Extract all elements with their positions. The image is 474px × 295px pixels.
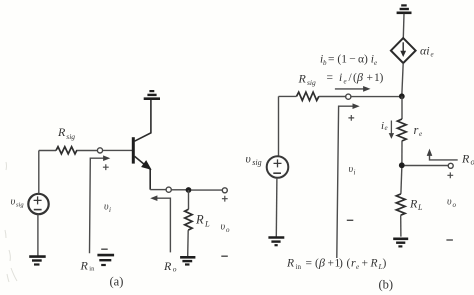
svg-text:i: i [354,169,356,177]
formula R_in = (beta+1)(r_e + R_L) [286,256,387,272]
svg-text:e: e [385,124,388,132]
voltage source VSIG (a) [28,194,48,214]
svg-text:e: e [419,130,422,138]
wire r_e to junction2 (b) [401,141,403,163]
resistor r_e (b) [401,96,403,119]
svg-text:R: R [409,197,418,211]
svg-text:e: e [344,78,347,86]
svg-text:(a): (a) [110,275,124,289]
svg-text:R: R [461,152,470,166]
wire emitter to out node (a) [150,189,166,191]
svg-text:R: R [195,213,204,227]
ground source (a) [29,257,46,265]
svg-text:+: + [362,258,369,270]
wire source to ground (b) [275,178,278,237]
wire RL to ground (a) [187,230,190,256]
R_o indicator arrow (b) [430,155,458,160]
node terminal circle B (a) [97,148,102,153]
svg-text:υ: υ [221,222,226,233]
resistor RL (b) [396,194,405,215]
svg-text:= (1 − α) i: = (1 − α) i [328,54,374,66]
scan smudges bottom-left [5,162,17,282]
ground reference v_i (a) [97,255,114,265]
wire resistor to node (b) [319,96,346,98]
output terminal circle (a) [222,188,227,193]
svg-text:o: o [226,226,230,234]
wire resistor to node circle (a) [77,150,97,152]
svg-text:sig: sig [16,202,24,209]
svg-text:): ) [383,258,387,270]
minus v_o (b) [446,239,453,241]
wire node to base (a) [103,149,132,151]
junction dot (a) [186,187,192,193]
wire junction down to RL (a) [188,190,190,209]
svg-text:(: ( [347,258,351,270]
svg-text:in: in [89,266,95,273]
node terminal circle (b) [346,94,351,99]
plus v_o (a) [222,196,228,202]
svg-text:/: / [349,72,353,84]
resistor RSIG (a) [56,147,77,154]
svg-text:R: R [80,259,89,273]
R_in indicator arrow (b) [337,106,354,258]
current direction arrow (b) [335,88,364,90]
transistor Q1 emitter with arrow [135,156,151,189]
wire RL to ground (b) [400,215,402,236]
wire corner to resistor (b) [279,95,297,97]
svg-text:R: R [57,125,66,139]
svg-text:r: r [414,123,419,137]
svg-text:β: β [356,70,363,84]
ground top (a) [144,91,160,99]
resistor RSIG (b) [297,92,319,100]
svg-text:i: i [109,206,111,214]
svg-text:): ) [339,258,343,270]
wire source-top to corner (a) [38,151,40,194]
plus v_i (b) [348,115,354,121]
ground RL (a) [180,257,195,264]
plus v_o (b) [447,172,453,178]
junction dot bottom (b) [399,162,405,168]
svg-text:αi: αi [420,44,430,58]
ground RL (b) [393,239,408,247]
svg-text:+: + [367,72,374,84]
svg-text:υ: υ [447,197,452,208]
wire junction2 to RL (b) [400,168,403,194]
wire diamond to junction (b) [402,63,403,94]
minus v_i (a) [101,248,108,250]
svg-text:): ) [380,72,384,84]
ground top (b) [397,5,412,12]
output terminal circle (b) [448,163,453,168]
svg-text:(b): (b) [379,278,394,292]
svg-text:sig: sig [307,78,316,87]
arrow inside diamond [402,42,404,52]
terminal circle E (a) [166,187,171,192]
svg-text:β: β [318,256,325,270]
svg-text:=: = [327,72,334,84]
svg-text:b: b [323,59,327,67]
transistor Q1 base bar [132,137,135,163]
wire top ground to source (b) [402,14,405,38]
wire source-bottom to ground (a) [37,214,39,256]
svg-text:R: R [298,72,307,86]
wire corner to resistor (a) [39,150,56,152]
svg-text:i: i [339,72,342,84]
svg-text:o: o [453,201,457,209]
svg-text:e: e [431,51,434,59]
svg-text:L: L [204,219,210,229]
svg-text:+: + [328,258,335,270]
wire junction2 to output terminal (b) [405,165,449,167]
svg-text:o: o [471,157,474,167]
ground source (b) [268,238,284,246]
plus v_i (a) [103,164,109,170]
wire junction to output terminal (a) [191,189,222,191]
R_o indicator arrow (a) [157,198,170,252]
wire corner to source (b) [278,96,280,156]
transistor Q1 collector [135,100,151,142]
svg-text:sig: sig [66,132,75,141]
svg-text:R: R [286,258,294,270]
svg-text:=: = [306,258,313,270]
minus v_i (b) [347,219,354,221]
minus v_o (a) [221,255,228,257]
dependent current source U1 diamond [391,38,416,63]
svg-text:R: R [370,258,378,270]
voltage source VSIG (b) [267,156,289,178]
svg-text:R: R [163,259,172,273]
junction dot top (b) [399,93,405,99]
resistor RL (a) [185,209,192,230]
svg-text:e: e [356,263,359,271]
svg-text:L: L [417,203,423,212]
svg-text:sig: sig [252,158,261,167]
svg-text:υ: υ [246,154,251,166]
svg-text:e: e [374,59,377,67]
wire node to junction (b) [351,96,399,98]
svg-text:o: o [173,265,177,274]
svg-text:υ: υ [11,197,16,208]
svg-text:in: in [296,263,302,271]
R_in indicator arrow (a) [90,158,105,253]
wire to junction (a) [171,189,186,191]
